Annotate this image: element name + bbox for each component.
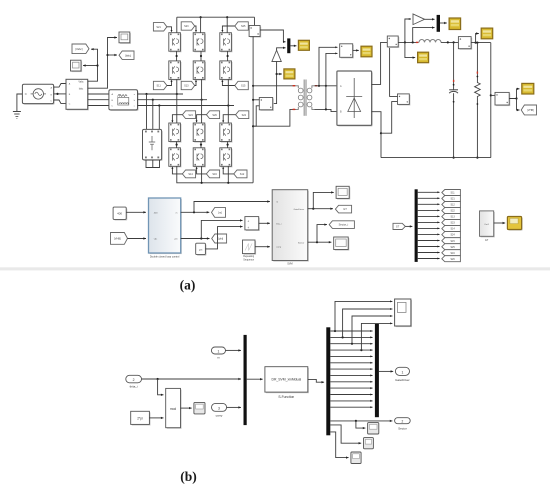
wire: mux b2 to GateDriver outport — [379, 370, 393, 372]
cap bank bottom stubs — [146, 160, 160, 168]
svg-text:[VHB]: [VHB] — [114, 237, 121, 241]
wire: m to mux1 — [226, 349, 242, 351]
wire: secondary top to rectifier A — [315, 85, 337, 87]
svg-text:S13: S13 — [184, 85, 189, 88]
svg-text:GT: GT — [343, 207, 347, 211]
IGBT upper bridge col1 row1 — [169, 33, 182, 53]
scope (GateDriver) — [336, 186, 350, 199]
svg-text:S12: S12 — [450, 204, 455, 207]
svg-text:S16: S16 — [212, 173, 217, 176]
svg-text:(a): (a) — [180, 278, 196, 293]
SVM block — [273, 191, 309, 262]
svg-text:phi: phi — [175, 239, 178, 241]
svg-text:thita_i: thita_i — [130, 385, 138, 389]
phase C line to bridge — [138, 105, 235, 107]
svg-text:S23: S23 — [450, 222, 455, 225]
goto tag S15 — [442, 238, 461, 244]
IGBT lower bridge col1 row1 — [169, 123, 182, 143]
wire: mux out to scope — [290, 45, 296, 47]
goto tag S23 — [442, 220, 461, 226]
upper bridge row1-row2 interconnects — [176, 51, 178, 61]
goto tag GT — [335, 205, 351, 213]
wire demux to S15 — [418, 240, 440, 242]
svg-text:S14: S14 — [450, 228, 455, 231]
IGBT upper bridge col3 row2 — [220, 61, 233, 81]
GT display subsystem — [481, 212, 495, 237]
from tag S21 — [153, 23, 167, 31]
constant 2*pi — [132, 412, 151, 425]
wire: S-Function to demux1 — [308, 379, 324, 382]
from tag [VHB] — [111, 233, 128, 245]
wire: tap to mux input 2 — [413, 28, 435, 43]
wire: VHB to controller vdc — [128, 238, 147, 240]
mux bar b2 — [375, 324, 379, 417]
svg-text:[m]: [m] — [218, 211, 222, 215]
red port tick secondary — [315, 85, 318, 86]
wire: sec vmeas to scope — [353, 49, 359, 51]
svg-text:S15: S15 — [450, 240, 455, 243]
svg-text:S12: S12 — [240, 173, 245, 176]
wire demux to S21 — [418, 197, 440, 199]
wire: tap up to gain — [405, 19, 411, 42]
wire: mux1 to S-Function — [247, 378, 263, 380]
wire: primary V meas out up to gain, scope tap — [273, 62, 277, 104]
wire: GT to demux — [405, 225, 412, 227]
svg-text:S22: S22 — [242, 114, 247, 117]
from tag S23 — [181, 22, 195, 30]
mux bar (HF link) — [287, 38, 290, 53]
current measurement box 2 — [458, 37, 472, 50]
svg-text:GateDriver: GateDriver — [294, 208, 305, 211]
svg-text:(b): (b) — [180, 469, 197, 484]
wire: bridge + up to current meas — [372, 42, 388, 84]
svg-text:S25: S25 — [241, 25, 246, 28]
outport 2 Sector — [395, 418, 411, 424]
goto tag [Iabc] — [119, 51, 134, 59]
repeating sequence block — [244, 241, 257, 255]
phase B line to bridge — [138, 99, 208, 101]
wire: meas box out to mux — [260, 30, 286, 42]
mux1 bar — [244, 335, 247, 425]
svg-text:S15: S15 — [241, 85, 246, 88]
svg-text:Vabc: Vabc — [78, 81, 84, 84]
capacitor branch — [453, 42, 455, 89]
svg-text:m: m — [276, 202, 278, 204]
wire: rail bottom to transformer primary bottom — [253, 109, 296, 126]
wire: repeating sequence to SVM carry — [255, 246, 270, 248]
mod block — [167, 390, 182, 429]
yellow display block — [509, 218, 523, 231]
vdc measurement box — [398, 94, 411, 106]
yellow scope (secondary V) — [361, 46, 372, 57]
wire demux to S11 — [418, 191, 440, 193]
wire: m out to tag and SVM — [181, 211, 210, 213]
scope (gate signals) — [395, 299, 412, 327]
phase drops to lower bridge tops — [176, 94, 178, 123]
svg-text:mod: mod — [170, 407, 176, 411]
wire demux to S24 — [418, 233, 440, 235]
svg-text:S25: S25 — [450, 246, 455, 249]
goto tag S13 — [442, 214, 461, 220]
svg-text:1: 1 — [217, 349, 219, 353]
wire demux to S14 — [418, 227, 440, 229]
wire: mux to scope — [440, 22, 447, 24]
wire: Iabc out up to junction, scope and Iabc tag — [88, 38, 117, 89]
dc return rail — [381, 157, 491, 159]
yellow scope (load I) — [481, 28, 493, 39]
mux bar (dc out) — [437, 15, 440, 32]
wire demux to S13 — [418, 215, 440, 217]
filter capacitor bank block — [144, 131, 163, 162]
goto tag S12 — [442, 202, 461, 208]
wires: VI outputs a,b,c to RLC branch — [88, 93, 109, 95]
svg-text:S23: S23 — [184, 25, 189, 28]
svg-text:[VHB]: [VHB] — [527, 109, 534, 112]
from tag S24 — [182, 111, 195, 119]
wire demux to S25 — [418, 246, 440, 248]
svg-text:S11: S11 — [451, 192, 456, 195]
wire: sector tap to display1 — [356, 421, 366, 428]
svg-text:+: + — [247, 220, 249, 224]
wire: 2*pi to mod — [149, 417, 163, 419]
lower bridge bottom bus — [177, 166, 253, 183]
IGBT lower bridge col3 row2 — [220, 148, 233, 168]
negative rail vertical — [252, 37, 254, 183]
wire: phase B down to filter cap — [152, 100, 154, 130]
IGBT lower bridge col2 row1 — [193, 123, 206, 143]
IGBT lower bridge col2 row2 — [193, 148, 206, 168]
display b2 — [364, 438, 374, 449]
goto tag S25 — [442, 244, 461, 250]
wire: mod to display — [181, 407, 192, 409]
svg-text:S-Function: S-Function — [278, 395, 294, 399]
from tag S16 — [206, 170, 219, 178]
svg-text:Sector: Sector — [398, 426, 407, 430]
scope block (Iabc) — [119, 32, 131, 44]
yellow scope (HF link V) — [298, 40, 309, 50]
svg-text:S14: S14 — [188, 173, 193, 176]
from tag S14 — [182, 170, 195, 178]
constant block pi/6 — [197, 244, 207, 255]
from tag GT — [393, 223, 405, 229]
svg-text:400: 400 — [117, 212, 122, 216]
wire: demux b1 to Sector outport — [330, 420, 392, 422]
diode rectifier bridge block — [338, 72, 373, 126]
svg-text:3: 3 — [218, 406, 220, 410]
goto tag S26 — [442, 256, 461, 262]
goto tag S21 — [442, 196, 461, 202]
gain triangle (right) — [413, 14, 425, 25]
svg-text:Out1: Out1 — [484, 223, 490, 226]
svg-text:S26: S26 — [450, 258, 455, 261]
goto tag [m] — [212, 208, 226, 218]
wire: source C to VI block C — [54, 100, 66, 104]
svg-text:S11: S11 — [156, 85, 161, 88]
wire: gain to mux — [425, 18, 435, 20]
wire: box2 out, scope tap, resistor, to load meas — [471, 42, 491, 44]
constant block 400 — [114, 208, 127, 220]
wire demux to S16 — [418, 252, 440, 254]
demux bar b1 — [326, 327, 330, 435]
S-Function block — [266, 368, 309, 393]
goto tag [VHB] — [521, 105, 536, 115]
current measurement box 1 — [387, 36, 399, 48]
wires into primary vmeas — [253, 99, 259, 101]
display b3 — [351, 452, 361, 464]
svg-text:S26: S26 — [212, 114, 217, 117]
wire: Sector out to tag and scope — [308, 241, 332, 243]
wire: carry to mux1 — [227, 406, 241, 408]
from tag S13 — [181, 81, 195, 89]
inport 3 carry — [212, 403, 227, 411]
svg-text:carry: carry — [216, 413, 223, 417]
wire: pi/6 to sum — [205, 227, 242, 249]
wire: thita_i to mux1 and mod — [142, 378, 242, 380]
goto tag S22 — [442, 208, 461, 214]
phase A line to bridge — [138, 93, 184, 95]
wire: phase C down to filter cap — [158, 106, 160, 130]
secondary voltage measurement box — [340, 44, 354, 59]
upper bridge row2 emitters to phase lines — [176, 79, 178, 94]
svg-text:+: + — [247, 226, 249, 230]
wire: source B to VI block B — [54, 93, 66, 95]
svg-text:[Iabc]: [Iabc] — [125, 54, 131, 57]
goto tag [Vabc] — [72, 44, 89, 54]
yellow scope (vdc) — [418, 52, 429, 63]
wire: demux to display b3 — [330, 432, 348, 458]
demux-to-mux gate lines — [330, 330, 372, 332]
goto tag [phi] — [212, 234, 227, 243]
svg-text:[phi]: [phi] — [218, 237, 223, 241]
display (mod out) — [194, 402, 205, 414]
three-phase VI measurement block — [67, 80, 89, 110]
load resistor branch — [476, 43, 478, 81]
from tag S22 — [236, 111, 249, 119]
yellow scope (dc current) — [449, 18, 461, 30]
IGBT lower bridge col3 row1 — [220, 123, 233, 143]
wire: sum to SVM thta_i — [259, 222, 270, 224]
wire: - tap to vdc meas lower input — [381, 102, 398, 134]
svg-text:SVM: SVM — [287, 262, 292, 265]
from tag S25 — [235, 22, 249, 30]
goto tag S16 — [442, 250, 461, 256]
filter inductor — [419, 40, 441, 43]
svg-text:DR_SVM_xinMdual: DR_SVM_xinMdual — [272, 378, 302, 382]
wire demux to S26 — [418, 258, 440, 260]
from tag S26 — [206, 111, 219, 119]
inport 2 thita_i — [126, 375, 142, 383]
svg-text:m: m — [176, 212, 178, 214]
svg-text:GT: GT — [396, 226, 400, 229]
svg-text:N: N — [25, 93, 27, 96]
yellow scope (primary V) — [284, 69, 295, 79]
scope (Sector) — [334, 237, 350, 251]
svg-text:S24: S24 — [450, 234, 455, 237]
dc run after current meas — [398, 41, 418, 43]
svg-text:2: 2 — [133, 378, 135, 382]
inport 1 m — [211, 347, 225, 354]
display b1 — [368, 423, 379, 434]
wire: secondary bottom to rectifier B — [315, 109, 337, 111]
svg-text:S24: S24 — [188, 114, 193, 117]
wire: gain out to mux input2 — [277, 48, 286, 50]
wire demux to S22 — [418, 209, 440, 211]
wire: tap down to scope — [405, 42, 415, 57]
svg-text:thta_i: thta_i — [276, 223, 282, 226]
IGBT upper bridge col3 row1 — [220, 33, 233, 53]
wire: rail to transformer primary top — [253, 85, 296, 87]
wire: secondary taps to sec vmeas — [319, 47, 338, 86]
IGBT lower bridge col1 row2 — [169, 148, 182, 168]
wire demux to S12 — [418, 203, 440, 205]
svg-text:S22: S22 — [450, 210, 455, 213]
wire: GateDriver out to GT tag and scope — [308, 208, 333, 210]
svg-text:Double closed loop control: Double closed loop control — [150, 255, 180, 258]
svg-text:1: 1 — [401, 371, 403, 375]
svg-text:S21: S21 — [156, 26, 161, 29]
wire: + to load vmeas — [490, 43, 492, 158]
wire demux to S23 — [418, 221, 440, 223]
lower bridge row1-row2 interconnects — [176, 142, 178, 148]
svg-text:Iabc: Iabc — [79, 87, 84, 90]
svg-text:Sector: Sector — [298, 241, 305, 244]
scope block (Vabc) — [71, 60, 83, 72]
wire: 400 to controller — [126, 211, 146, 213]
top DC bus of upper bridge — [177, 16, 255, 18]
IGBT upper bridge col2 row2 — [193, 61, 206, 81]
wire: GT subsystem to display — [494, 222, 506, 224]
goto tag S14 — [442, 226, 461, 232]
bus drops to upper IGBT tops — [176, 17, 178, 33]
gain triangle (up) — [272, 50, 281, 61]
svg-text:2: 2 — [402, 420, 404, 424]
IGBT upper bridge col2 row1 — [193, 33, 206, 53]
goto tag Sector_i — [329, 221, 354, 229]
outport 1 GateDriver — [395, 367, 409, 375]
wire: source neutral to ground — [17, 94, 23, 112]
svg-text:[Vabc]: [Vabc] — [75, 47, 82, 51]
svg-text:GT: GT — [485, 239, 489, 242]
yellow scope (load V) — [522, 83, 534, 94]
red port tick primary — [293, 85, 296, 86]
from tag S11 — [153, 81, 167, 89]
HF transformer — [303, 80, 305, 116]
goto tag S11 — [442, 190, 461, 196]
svg-text:S13: S13 — [450, 216, 455, 219]
load voltage measurement box — [495, 92, 510, 106]
wire: load vmeas to scope and VHB goto — [509, 89, 519, 99]
from tag S15 — [235, 81, 249, 89]
demux bar (gate signals) — [415, 189, 418, 262]
wire into Vabc scope — [83, 65, 98, 67]
ground — [13, 111, 21, 113]
svg-text:2*pi: 2*pi — [137, 417, 143, 421]
three-phase source block — [24, 85, 55, 104]
IGBT upper bridge col1 row2 — [169, 61, 182, 81]
wire: vdc meas upper input from + line — [390, 47, 398, 97]
separator band — [0, 267, 550, 270]
wire: demux to display b2 — [330, 425, 361, 443]
svg-text:S21: S21 — [450, 198, 455, 201]
wire: source A to VI block A — [54, 84, 66, 88]
svg-text:GateDriver: GateDriver — [395, 378, 410, 382]
primary voltage measurement box — [259, 98, 274, 111]
wire: phi out to tag and sum — [181, 238, 210, 240]
HF-link voltage measurement box — [249, 26, 261, 38]
wire: bridge - down to rail — [372, 112, 381, 158]
three-phase series RLC branch block — [110, 91, 139, 111]
taps up to scope — [334, 330, 336, 332]
svg-text:Sector_i: Sector_i — [339, 223, 349, 227]
wire: phase A down to filter cap — [146, 94, 148, 129]
wire: VI Vabc out up to Vabc tag and scope — [88, 49, 98, 81]
red tick inductor — [416, 42, 418, 43]
svg-text:Sequence: Sequence — [243, 258, 254, 261]
from tag S12 — [234, 170, 247, 178]
goto tag S24 — [442, 232, 461, 238]
sum block — [246, 218, 260, 231]
svg-text:S16: S16 — [450, 252, 455, 255]
